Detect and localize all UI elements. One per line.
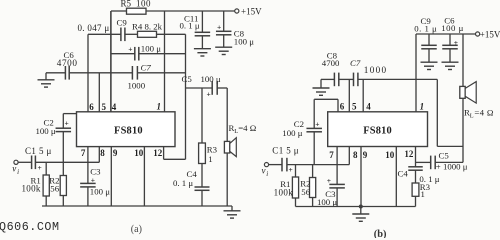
svg-text:0. 1 μ: 0. 1 μ	[414, 24, 437, 34]
svg-text:5: 5	[102, 102, 107, 112]
svg-text:100 μ: 100 μ	[317, 197, 337, 207]
svg-text:v: v	[262, 166, 266, 176]
svg-text:+: +	[327, 176, 331, 185]
svg-text:6: 6	[89, 102, 94, 112]
svg-text:12: 12	[153, 148, 163, 158]
svg-text:100 μ: 100 μ	[141, 44, 161, 54]
svg-text:+ 1000 μ: + 1000 μ	[436, 161, 468, 171]
svg-text:5: 5	[352, 102, 357, 112]
svg-text:100: 100	[136, 0, 151, 9]
svg-text:+: +	[217, 23, 221, 32]
svg-text:(b): (b)	[374, 229, 387, 238]
svg-text:C7: C7	[141, 62, 152, 72]
svg-text:C9: C9	[117, 18, 128, 28]
svg-text:+: +	[207, 89, 211, 98]
svg-text:100 μ: 100 μ	[90, 186, 110, 196]
svg-text:9: 9	[113, 148, 118, 158]
svg-text:10: 10	[385, 150, 395, 160]
svg-text:100k: 100k	[22, 183, 41, 193]
svg-text:v: v	[12, 164, 16, 174]
svg-text:1: 1	[208, 154, 212, 164]
svg-text:C5: C5	[182, 74, 193, 84]
svg-text:100k: 100k	[274, 187, 294, 197]
svg-text:8: 8	[100, 148, 105, 158]
svg-text:12: 12	[404, 149, 414, 159]
svg-text:0. 047 μ: 0. 047 μ	[78, 23, 110, 33]
svg-text:7: 7	[81, 148, 86, 158]
svg-text:100 μ: 100 μ	[201, 74, 221, 84]
svg-text:(a): (a)	[131, 224, 142, 235]
svg-text:100 μ: 100 μ	[36, 126, 56, 136]
svg-text:6: 6	[340, 102, 345, 112]
svg-text:56: 56	[50, 184, 59, 194]
svg-text:100 μ: 100 μ	[282, 128, 302, 138]
svg-text:C7: C7	[350, 58, 361, 68]
svg-text:+: +	[65, 118, 69, 127]
svg-text:+: +	[454, 38, 458, 47]
svg-text:9: 9	[363, 150, 368, 160]
svg-text:R4 8. 2k: R4 8. 2k	[132, 21, 163, 31]
svg-text:10: 10	[134, 148, 144, 158]
svg-text:1000: 1000	[364, 65, 388, 75]
svg-text:+: +	[91, 175, 95, 184]
svg-text:+: +	[315, 120, 319, 129]
svg-text:+15V: +15V	[241, 6, 262, 16]
svg-text:L: L	[470, 113, 474, 120]
svg-text:=4 Ω: =4 Ω	[238, 123, 257, 133]
svg-text:C5: C5	[439, 151, 450, 161]
svg-text:C4: C4	[398, 168, 409, 178]
svg-text:+15V: +15V	[480, 29, 500, 39]
svg-text:1: 1	[421, 189, 425, 199]
svg-text:C1 5 μ: C1 5 μ	[272, 146, 299, 156]
svg-text:100 μ: 100 μ	[234, 37, 254, 47]
svg-text:1: 1	[157, 101, 162, 111]
svg-text:FS810: FS810	[363, 126, 392, 137]
svg-text:+: +	[289, 165, 293, 174]
svg-text:4700: 4700	[57, 58, 78, 68]
svg-text:7: 7	[329, 150, 334, 160]
svg-text:1000: 1000	[128, 81, 146, 91]
svg-text:i: i	[17, 168, 19, 176]
svg-text:4: 4	[366, 102, 371, 112]
svg-text:=4 Ω: =4 Ω	[474, 108, 493, 118]
svg-text:56: 56	[301, 187, 310, 197]
svg-text:C1 5 μ: C1 5 μ	[25, 146, 52, 156]
svg-text:4700: 4700	[322, 58, 340, 68]
svg-text:1: 1	[420, 102, 425, 112]
svg-text:+: +	[38, 163, 42, 172]
svg-text:FS810: FS810	[114, 126, 143, 137]
svg-text:Q606.COM: Q606.COM	[0, 220, 60, 234]
svg-text:R3: R3	[207, 145, 218, 155]
svg-text:R5: R5	[121, 0, 132, 9]
svg-text:0. 1 μ: 0. 1 μ	[180, 21, 200, 31]
svg-text:+: +	[128, 45, 132, 54]
svg-text:8: 8	[353, 150, 358, 160]
svg-text:0. 1 μ: 0. 1 μ	[173, 178, 193, 188]
svg-text:i: i	[266, 170, 268, 178]
svg-text:4: 4	[112, 102, 117, 112]
svg-text:100 μ: 100 μ	[441, 23, 464, 33]
